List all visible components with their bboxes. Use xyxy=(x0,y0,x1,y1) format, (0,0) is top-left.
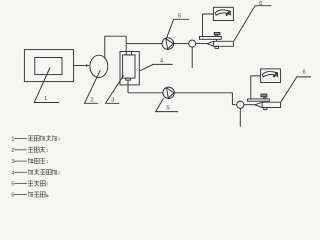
leader 1 xyxy=(34,68,59,103)
leader 5 (bottom) xyxy=(156,98,178,111)
junction node (bottom) xyxy=(237,101,244,108)
meter (bottom photometer display) xyxy=(261,69,281,83)
top nozzle bottom tab xyxy=(215,46,219,48)
pump 5 (top) circle xyxy=(162,38,174,50)
pump 5 (bottom) circle xyxy=(163,87,174,98)
buffer 2 (ellipse) xyxy=(90,55,108,77)
top nozzle tick to bar xyxy=(215,39,217,41)
wire: junction to top filter holder xyxy=(196,43,208,45)
bottom nozzle bottom tab xyxy=(264,108,267,110)
wire: top pump to junction xyxy=(174,43,189,45)
wire: bottom junction to bottom holder xyxy=(244,104,255,106)
leader 5 (top) xyxy=(167,19,189,37)
leader 3 xyxy=(106,75,124,103)
filter holder 6 (top) nozzle body xyxy=(207,41,233,46)
leader 2 xyxy=(85,70,101,103)
wire: generator output arrow line xyxy=(74,65,87,67)
pump 5 (top) triangle xyxy=(166,39,174,49)
bottom meter needle xyxy=(273,72,277,77)
wire: filter to bottom pump xyxy=(128,92,163,94)
filter element 3 (rect) xyxy=(123,55,135,78)
wire: bottom meter to bar xyxy=(251,76,261,99)
wire: stub below top junction xyxy=(191,47,193,68)
filter top neck xyxy=(126,52,131,55)
svg-text:5: 5 xyxy=(166,106,169,112)
arrowhead into buffer xyxy=(86,64,90,66)
pump 5 (bottom) triangle xyxy=(167,88,175,98)
svg-text:1: 1 xyxy=(44,96,47,102)
leader 4 xyxy=(140,64,173,70)
oil mist generator 1 outer box xyxy=(24,50,73,82)
wire: top meter to bar xyxy=(203,14,214,37)
bottom meter gauge band xyxy=(262,71,278,76)
svg-text:3: 3 xyxy=(111,97,114,103)
callout digits xyxy=(44,1,306,112)
leader 6 (top) xyxy=(234,6,271,41)
bottom holder bar xyxy=(248,99,270,101)
wire: branch to top pump xyxy=(126,43,162,45)
top meter needle xyxy=(226,11,230,16)
svg-text:2: 2 xyxy=(11,148,14,154)
top sensor stem xyxy=(216,35,218,37)
wire: stub below bottom junction xyxy=(239,108,241,126)
svg-text:6: 6 xyxy=(259,1,262,7)
bottom nozzle notch xyxy=(261,102,263,107)
filter holder 6 (bottom) nozzle body xyxy=(255,102,281,107)
wire: filter outlet down xyxy=(127,80,129,93)
svg-text:5: 5 xyxy=(178,13,181,19)
bottom sensor stem xyxy=(264,97,266,99)
top holder bar xyxy=(199,37,221,40)
wire: buffer riser to top pipe and down into filter xyxy=(105,36,126,58)
top sensor knob xyxy=(214,33,220,35)
oil mist generator 1 inner box xyxy=(35,58,62,75)
junction node (top) xyxy=(189,40,196,47)
wire: bottom pump to step xyxy=(174,93,236,105)
leader 6 (bottom) xyxy=(281,77,311,102)
bottom sensor knob xyxy=(261,94,267,97)
svg-text:6: 6 xyxy=(302,70,305,76)
svg-text:1: 1 xyxy=(11,137,14,143)
svg-text:2: 2 xyxy=(90,97,93,103)
bottom nozzle tick to bar xyxy=(264,101,266,102)
filter bottom neck xyxy=(126,78,131,80)
filter clamp 4 (rect) xyxy=(120,52,139,85)
top meter gauge band xyxy=(215,10,231,15)
top nozzle notch xyxy=(213,41,215,46)
meter (top photometer display) xyxy=(213,7,233,20)
